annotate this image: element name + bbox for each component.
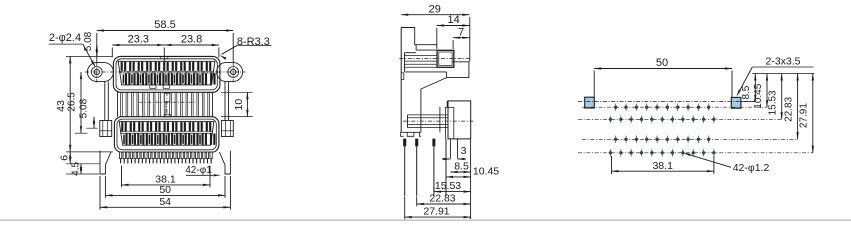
dim 14 [437, 25, 470, 27]
hole row3 #2 [624, 138, 627, 141]
svg-text:2-3x3.5: 2-3x3.5 [765, 56, 800, 68]
row4 centerline [578, 152, 813, 154]
mid section v-centerline [166, 92, 168, 113]
extension line right x=231 [232, 33, 234, 62]
ext line x=469.4 top [469, 17, 471, 62]
dim 58.5 overall width [97, 30, 233, 32]
hole row4 #8 [681, 151, 684, 154]
bracket notch 2 [420, 132, 421, 136]
svg-text:50: 50 [656, 57, 668, 69]
upper shell lines [405, 55, 438, 57]
bottom row2 rib 4 [149, 135, 150, 144]
bottom shell outer [114, 117, 218, 153]
upper shell centerline [400, 58, 472, 60]
bottom row2 pin 10 [202, 134, 204, 145]
hole row2 #9 [692, 118, 695, 121]
dim 6 [69, 152, 71, 164]
lower shell lines [408, 114, 449, 116]
bottom row1 pin 3 [138, 122, 140, 131]
hole row1 #8 [686, 106, 689, 109]
dim 15.53 v [781, 74, 783, 120]
ext hline y=133.2 [75, 132, 88, 134]
bottom row2 pin 4 [151, 134, 153, 145]
bottom row2 rib 9 [191, 135, 192, 144]
top row1 pin 3 [138, 62, 140, 71]
side pin 1 [403, 139, 406, 146]
svg-text:42-φ1: 42-φ1 [185, 165, 212, 176]
solder tail comb (26 tails) [119, 152, 121, 159]
bottom row1 pin 1 [121, 122, 123, 131]
svg-text:22.83: 22.83 [783, 96, 794, 121]
top row2 rib 9 [191, 75, 192, 84]
plate inner hline [448, 106, 454, 108]
dim 10.45 v [766, 74, 768, 108]
plate left strip [444, 107, 446, 139]
right ear outline [217, 63, 243, 82]
ext line x=225 [224, 176, 226, 198]
dim 38.1 [122, 184, 211, 186]
dim 50 (pad spacing) [594, 68, 732, 70]
hole row1 #1 [614, 106, 617, 109]
right ear hole φ2.4 [231, 69, 236, 74]
hole row3 #5 [655, 138, 658, 141]
top row2 pin 11 [210, 73, 212, 84]
bottom row2 pin 1 [126, 134, 128, 145]
svg-text:15.53: 15.53 [435, 180, 461, 192]
top row2 pin 3 [142, 73, 144, 84]
bottom row1 pin 9 [189, 122, 191, 131]
bottom aperture [119, 122, 214, 146]
top row2 rib 3 [140, 75, 141, 84]
bottom row2 pin 11 [210, 134, 212, 145]
hole row2 #6 [661, 118, 664, 121]
ext x=404.7 low [404, 197, 406, 220]
bracket bottom edge [401, 131, 421, 133]
ext line x=100 [99, 176, 101, 210]
solid stub pad row [741, 101, 755, 103]
diagonal web [421, 78, 447, 89]
bottom row1 pin 8 [180, 122, 182, 131]
top row2 pin 10 [202, 73, 204, 84]
bottom row2 pin 3 [142, 134, 144, 145]
svg-text:38.1: 38.1 [652, 160, 673, 172]
bottom row1 pin 11 [206, 122, 208, 131]
dim 5.08 upper [96, 45, 98, 57]
svg-text:10.45: 10.45 [753, 83, 764, 108]
bottom row2 pin 7 [176, 134, 178, 145]
extension line left x=98 [96, 33, 98, 62]
top row2 pin 5 [159, 73, 161, 84]
bottom row2 pin 5 [159, 134, 161, 145]
side pin 3 [433, 139, 436, 146]
bottom row2 rib 10 [199, 135, 200, 144]
dim 27.91 v [812, 74, 814, 153]
hole row4 #1 [609, 151, 612, 154]
dim 50 front [105, 194, 225, 196]
hole row3 #1 [614, 138, 617, 141]
svg-text:27.91: 27.91 [423, 206, 449, 218]
ext hline pin tips y=163.8 [66, 163, 100, 165]
svg-text:50: 50 [159, 184, 171, 196]
dim 43 [69, 56, 71, 151]
right bracket leg [219, 151, 230, 174]
bottom row2 pin 8 [185, 134, 187, 145]
hole row3 #8 [686, 138, 689, 141]
ear horizontal centerline [85, 71, 246, 73]
right hole vertical centerline [232, 62, 234, 83]
hole row4 #11 [712, 151, 715, 154]
top row1 pin 4 [146, 62, 148, 71]
bottom row2 rib 3 [140, 135, 141, 144]
hole row4 #2 [619, 151, 622, 154]
right lower flange [221, 121, 233, 137]
bracket notch 0 [401, 132, 404, 136]
upper shell bottom plate [405, 71, 447, 73]
svg-text:8.5: 8.5 [454, 160, 469, 172]
hole row3 #7 [676, 138, 679, 141]
svg-text:58.5: 58.5 [154, 19, 175, 31]
hole row4 #7 [671, 151, 674, 154]
top row1 pin 7 [172, 62, 174, 71]
hole row4 #3 [629, 151, 632, 154]
hole row1 #9 [697, 106, 700, 109]
bottom shell inner [117, 119, 216, 150]
top row1 pin 5 [155, 62, 157, 71]
leader 2-φ2.4 [49, 43, 83, 45]
hole row2 #2 [619, 118, 622, 121]
lower flange front wall [439, 107, 441, 132]
top row2 pin 7 [176, 73, 178, 84]
step lines [415, 45, 417, 50]
extension line x=112.3 [111, 48, 113, 58]
bottom row2 rib 2 [132, 135, 133, 144]
row2 centerline [578, 118, 782, 120]
dim 38.1 pcb [612, 170, 714, 172]
left bracket leg [100, 151, 111, 174]
svg-text:7: 7 [458, 26, 464, 38]
hole row1 #7 [676, 106, 679, 109]
bottom row1 pin 5 [155, 122, 157, 131]
ext line x=453.1 [452, 40, 454, 49]
front clip upper [401, 73, 403, 80]
hole row2 #11 [712, 118, 715, 121]
dim 26.5 [80, 72, 82, 133]
bottom row2 rib 5 [157, 135, 158, 144]
svg-text:10.45: 10.45 [473, 166, 499, 178]
bottom row1 pin 4 [147, 122, 149, 131]
bottom row1 pin 2 [130, 122, 132, 131]
bottom row1 pin 10 [197, 122, 199, 131]
svg-text:4.5: 4.5 [70, 162, 81, 176]
top shell notch top-center [161, 56, 168, 58]
top aperture ledge line 2 [119, 72, 213, 74]
hole row2 #7 [671, 118, 674, 121]
ext line x=121.5 (first tail) [121, 166, 123, 188]
top row2 rib 2 [131, 75, 132, 84]
hole row4 #10 [702, 151, 705, 154]
side pin 2 [415, 139, 418, 146]
extension line x=164.3 [163, 48, 165, 63]
hole row2 #1 [609, 118, 612, 121]
right side arm [224, 81, 226, 120]
top row2 rib 4 [148, 75, 149, 84]
left lower flange [100, 121, 112, 137]
ext hline shell gap bottom [221, 116, 253, 118]
top row2 pin 9 [193, 73, 195, 84]
top row1 pin 11 [206, 62, 208, 71]
hole row2 #3 [629, 118, 632, 121]
svg-text:8-R3.3: 8-R3.3 [237, 36, 270, 48]
hole row1 #3 [635, 106, 638, 109]
pad row centerline [578, 101, 755, 103]
row3 centerline [582, 138, 798, 140]
left ear hole φ2.4 [94, 69, 99, 74]
svg-text:23.3: 23.3 [128, 34, 149, 46]
top reference line [752, 73, 814, 75]
ext line x=105.4 [104, 176, 106, 198]
bottom gray rule [0, 219, 851, 221]
mid section right edge [212, 92, 214, 116]
svg-text:54: 54 [159, 196, 171, 208]
top row1 pin 6 [163, 62, 165, 71]
top row2 rib 7 [174, 75, 175, 84]
dim 15.53 [434, 191, 471, 193]
bottom row2 rib 8 [182, 135, 183, 144]
ext hline shell gap top [221, 91, 253, 93]
bottom row2 pin 6 [168, 134, 170, 145]
bottom row2 rib 7 [174, 135, 175, 144]
svg-text:3: 3 [461, 145, 467, 157]
lower shell centerline [403, 120, 474, 122]
hole row3 #4 [645, 138, 648, 141]
hole row1 #10 [707, 106, 710, 109]
top row2 pin 2 [134, 73, 136, 84]
dim 3 [442, 158, 450, 160]
bracket notch 1 [407, 132, 414, 136]
ext line x=611.5 [611, 156, 613, 174]
dim 7 [453, 37, 469, 39]
hole row3 #10 [707, 138, 710, 141]
ext line x=436.8 [436, 28, 438, 49]
mid section left edge [117, 92, 119, 116]
left wall [400, 28, 402, 133]
hole row2 #4 [640, 118, 643, 121]
label underline 2-3x3.5 [752, 66, 813, 68]
bottom row2 rib 6 [166, 135, 167, 144]
svg-text:8.5: 8.5 [741, 85, 752, 99]
dim 22.83 [417, 203, 471, 205]
dim 4.5 [80, 164, 82, 174]
hole row2 #5 [650, 118, 653, 121]
dim 10 [246, 92, 248, 116]
mid section center key [164, 93, 170, 102]
dim 23.8 [164, 44, 219, 46]
dim 8.5 [450, 171, 470, 173]
dim 29 [401, 14, 469, 16]
top row1 pin 1 [121, 62, 123, 71]
ext hline bracket bottom y=174 [66, 173, 99, 175]
top row1 pin 10 [197, 62, 199, 71]
ext line x=210 (last tail) [209, 166, 211, 188]
svg-text:14: 14 [447, 14, 459, 26]
top row1 pin 8 [180, 62, 182, 71]
right square pad 3x3.5 [731, 97, 741, 108]
big mounting plate [448, 101, 471, 139]
hole row1 #6 [666, 106, 669, 109]
top row2 rib 6 [165, 75, 166, 84]
top shell outer [113, 56, 219, 92]
extension line x=218.9 [218, 48, 220, 58]
dim 54 [100, 206, 230, 208]
dim 23.3 [112, 44, 164, 46]
top aperture [118, 61, 215, 85]
svg-text:29: 29 [429, 3, 441, 15]
dim 8.5 v [754, 74, 756, 102]
mid section h-centerline [139, 101, 195, 103]
hole row3 #3 [635, 138, 638, 141]
ext line right pad [731, 71, 733, 98]
top row2 pin 4 [151, 73, 153, 84]
dim 22.83 v [797, 74, 799, 140]
hole row2 #8 [681, 118, 684, 121]
svg-text:27.91: 27.91 [799, 103, 810, 128]
left ear outline [87, 63, 113, 82]
top shell inner [116, 59, 217, 90]
svg-text:22.83: 22.83 [429, 193, 455, 205]
hole row1 #5 [655, 106, 658, 109]
svg-text:5.08: 5.08 [79, 98, 90, 118]
ext line x=230.4 [229, 176, 231, 210]
hole row1 #2 [624, 106, 627, 109]
hole row4 #6 [661, 151, 664, 154]
svg-text:5.08: 5.08 [83, 31, 94, 51]
leader 42-φ1 [186, 174, 213, 176]
ext line x=713.9 [713, 156, 715, 174]
right ext line x=470.6 [470, 140, 472, 220]
dim 10.45 line [446, 176, 471, 178]
rear top block [401, 28, 437, 45]
dim 27.91 [405, 216, 471, 218]
top row2 rib 5 [157, 75, 158, 84]
top row2 pin 1 [125, 73, 127, 84]
ext x=433.9 low [433, 187, 435, 192]
ext hline body top y=56.4 [66, 55, 112, 57]
upper pin block [437, 50, 454, 67]
hole row4 #9 [692, 151, 695, 154]
hole row4 #4 [640, 151, 643, 154]
bottom row2 rib 1 [123, 135, 124, 144]
hole row4 #5 [650, 151, 653, 154]
left hole vertical centerline [96, 62, 98, 83]
hole row3 #9 [697, 138, 700, 141]
bottom aperture ledge line 2 [120, 132, 212, 134]
leader 2-3x3.5 [738, 67, 753, 95]
upper shell front wall [404, 53, 406, 72]
left square pad 3x3.5 [585, 97, 595, 108]
right ear boss circle [228, 67, 239, 78]
bottom shell notch top-center [164, 114, 170, 117]
plate inner vline [453, 107, 455, 139]
side pin 4 (behind plate) [445, 139, 447, 196]
svg-text:2-φ2.4: 2-φ2.4 [49, 32, 81, 44]
bottom row1 pin 7 [172, 122, 174, 131]
left side arm [104, 81, 106, 120]
svg-text:10: 10 [233, 99, 245, 111]
bottom row2 pin 9 [193, 134, 195, 145]
rear plate top [447, 62, 469, 78]
top row2 pin 8 [185, 73, 187, 84]
leader 8-R3.3 [237, 44, 271, 46]
top row1 pin 9 [189, 62, 191, 71]
top row2 rib 1 [123, 75, 124, 84]
left ear boss circle [91, 67, 102, 78]
bottom row1 pin 6 [164, 122, 166, 131]
svg-text:43: 43 [55, 100, 67, 112]
ext hline y=128.2 [86, 127, 97, 129]
row1 centerline [582, 106, 767, 108]
top row2 pin 6 [168, 73, 170, 84]
mid section rib lines [120, 92, 122, 116]
hole row3 #6 [666, 138, 669, 141]
leader 42-φ1.2 [686, 154, 732, 168]
bottom row2 pin 2 [134, 134, 136, 145]
svg-text:6: 6 [59, 155, 71, 161]
top row2 rib 8 [182, 75, 183, 84]
svg-text:26.5: 26.5 [66, 92, 77, 112]
svg-text:15.53: 15.53 [768, 90, 779, 115]
ext x=416.7 low [416, 197, 418, 207]
top aperture notch A [150, 85, 156, 88]
hole row2 #10 [702, 118, 705, 121]
svg-text:23.8: 23.8 [181, 34, 202, 46]
top aperture ledge line 1 [120, 71, 214, 73]
top row1 pin 2 [129, 62, 131, 71]
ext hline body bottom y=151.9 [66, 151, 113, 153]
top aperture notch B [163, 85, 169, 88]
svg-text:42-φ1.2: 42-φ1.2 [733, 162, 770, 174]
rear plate left edge [446, 72, 448, 78]
ext line left pad [593, 71, 595, 98]
web vertical [420, 89, 422, 132]
dim 5.08 lower [93, 117, 95, 129]
lower shell front wall [407, 115, 409, 128]
bottom aperture ledge line 1 [121, 131, 213, 133]
mounting post walls [449, 139, 451, 159]
hole row1 #4 [645, 106, 648, 109]
top row2 rib 10 [199, 75, 200, 84]
